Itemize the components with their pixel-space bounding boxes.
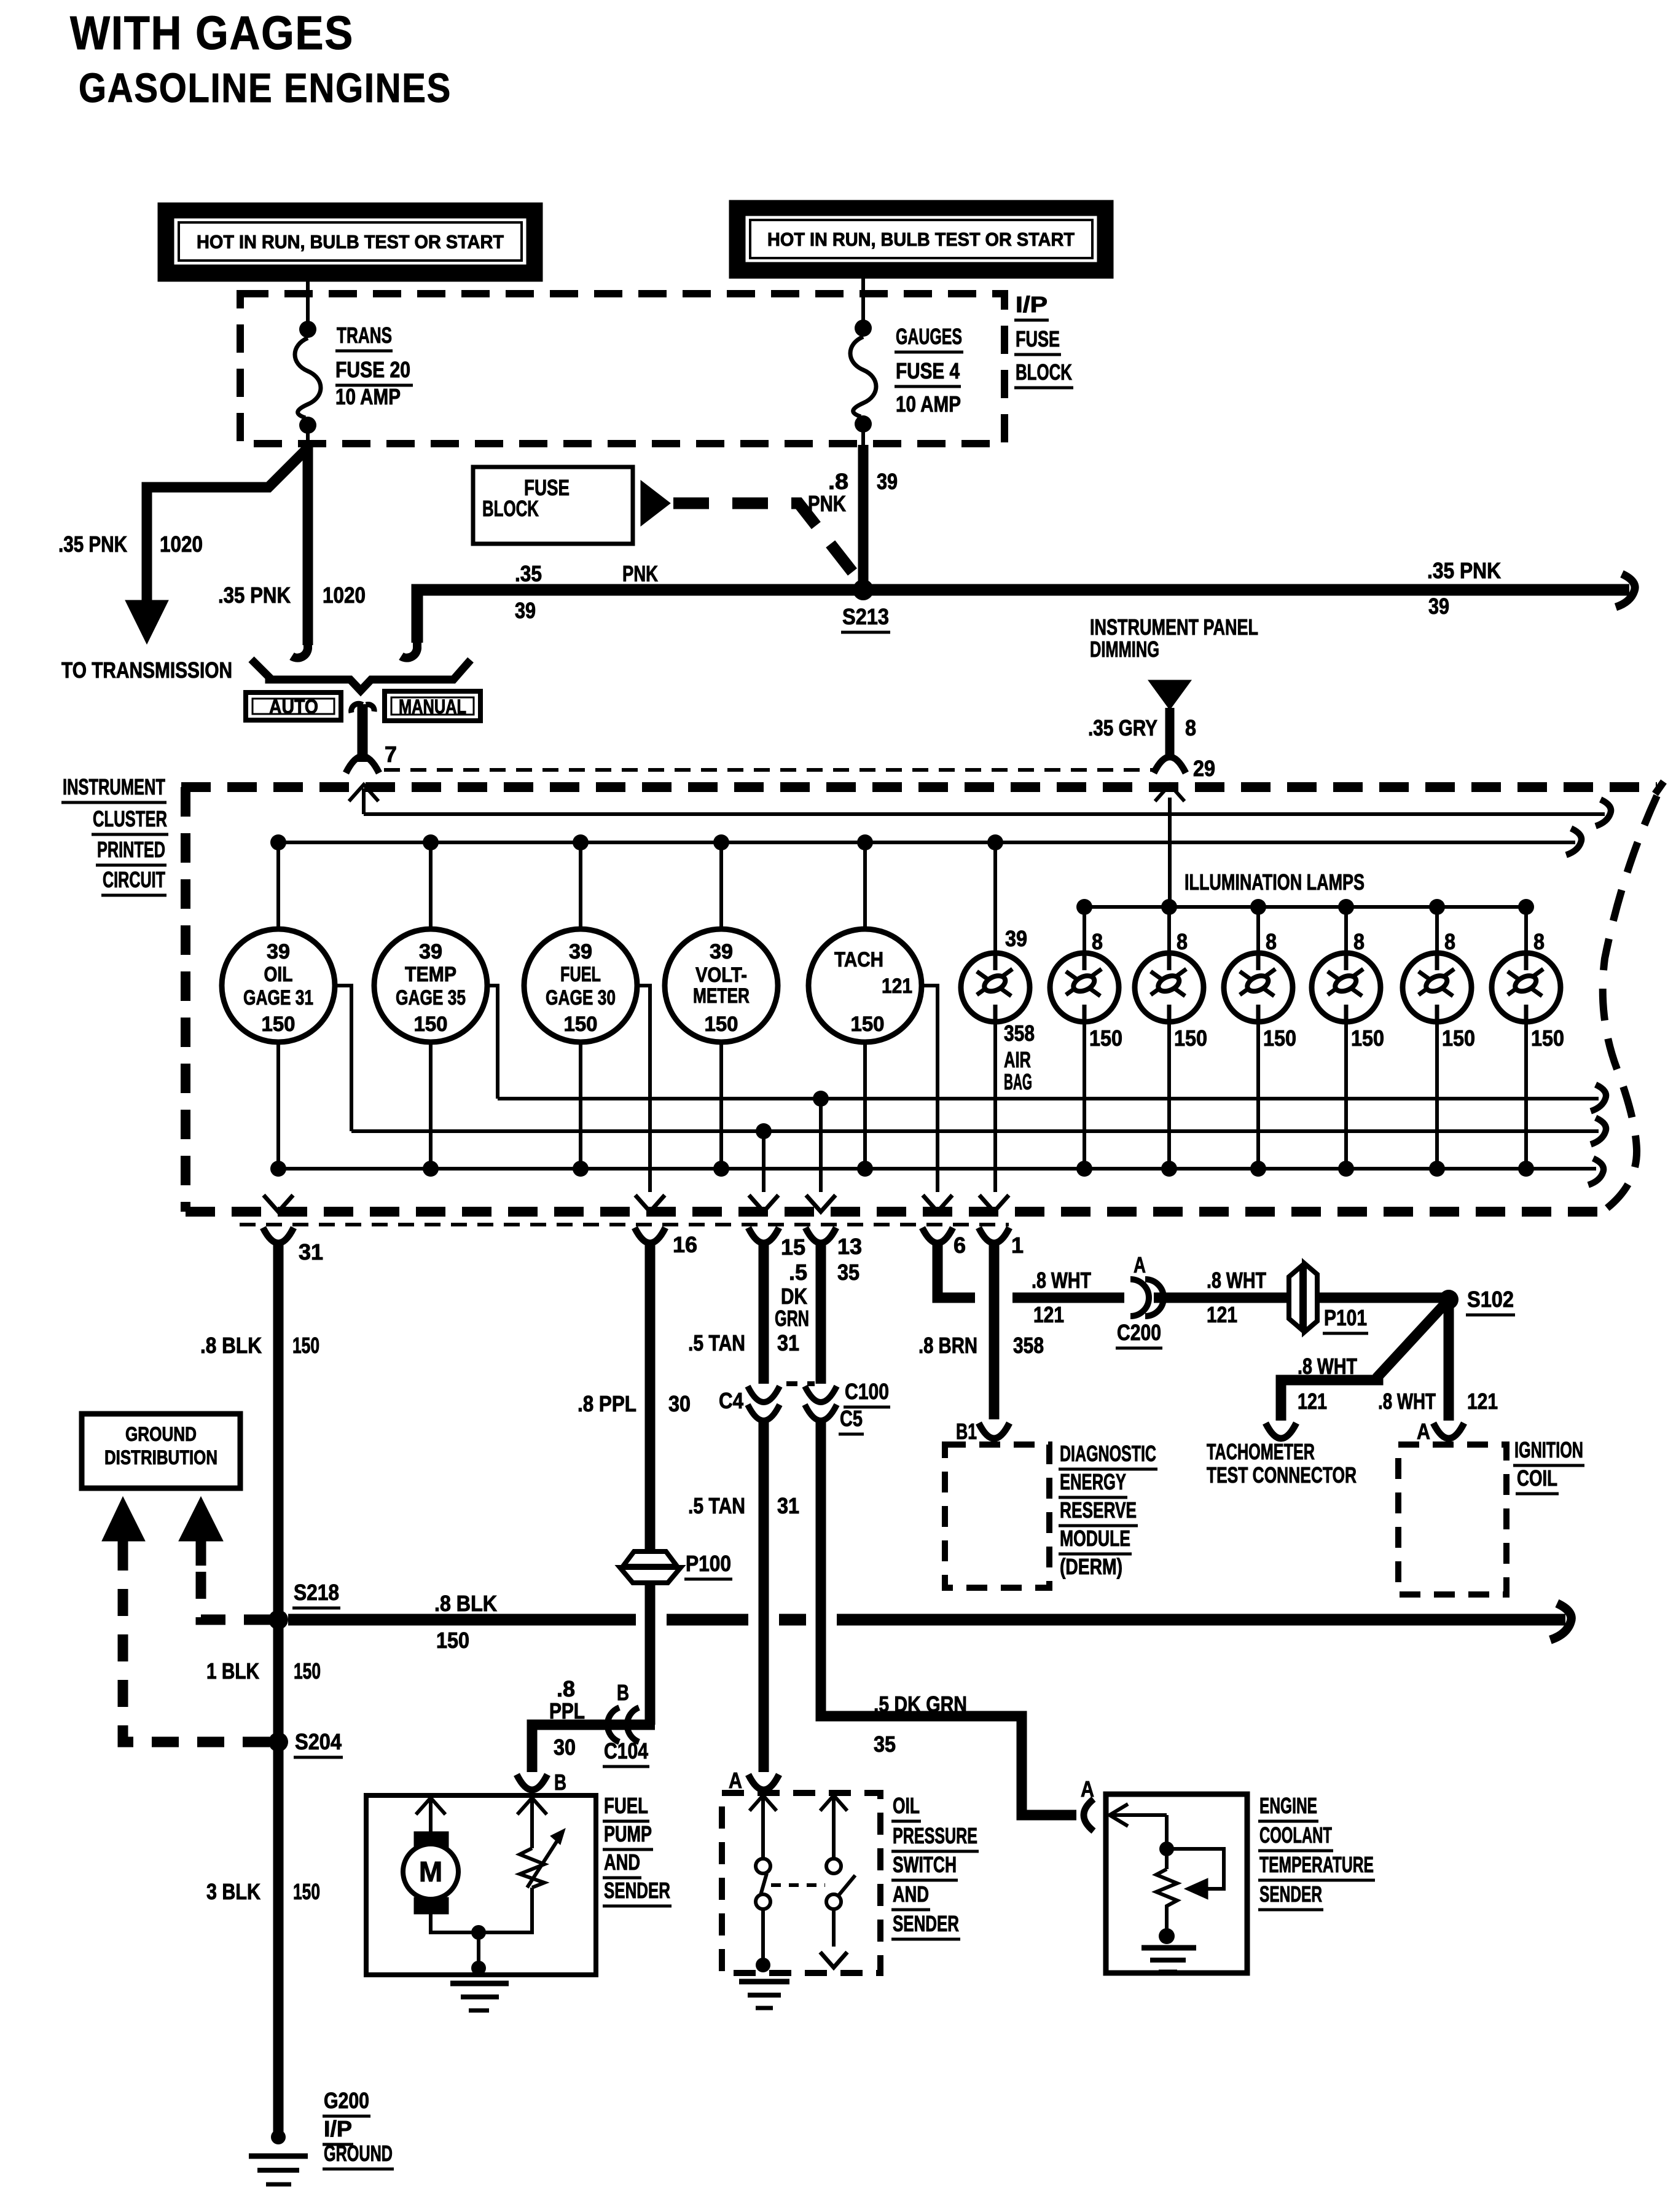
arrow from dimming xyxy=(1148,680,1191,710)
wire S204 to ground xyxy=(273,1746,284,2132)
gauge TACH circle xyxy=(809,929,922,1042)
junction dot lamp bus x2484 xyxy=(1518,899,1534,915)
wire pin1 down xyxy=(989,1241,1000,1419)
connector C100 arcs xyxy=(805,1386,837,1421)
wire box1 to fuse 20 xyxy=(306,281,310,322)
wire fuse20 to box edge xyxy=(306,433,310,446)
label TEMPERATURE xyxy=(1258,1852,1375,1880)
svg-text:121: 121 xyxy=(1207,1302,1237,1327)
svg-text:AND: AND xyxy=(893,1881,929,1907)
svg-text:7: 7 xyxy=(385,742,397,767)
svg-text:B: B xyxy=(617,1680,629,1705)
splice S213 xyxy=(853,579,874,600)
svg-text:30: 30 xyxy=(668,1391,691,1416)
svg-text:TEMP: TEMP xyxy=(405,963,456,986)
arrow to transmission xyxy=(125,600,168,644)
svg-text:IGNITION: IGNITION xyxy=(1514,1437,1583,1462)
label GROUND (g200) xyxy=(323,2141,394,2169)
power feed box 1 (HOT IN RUN, BULB TEST OR START) xyxy=(158,203,542,281)
svg-text:.8 BLK: .8 BLK xyxy=(434,1591,497,1616)
svg-text:SWITCH: SWITCH xyxy=(893,1852,957,1877)
label IGNITION xyxy=(1513,1437,1584,1465)
trace pin13 down xyxy=(819,1099,823,1192)
svg-text:TO TRANSMISSION: TO TRANSMISSION xyxy=(61,657,232,683)
junction dot gauge bus x1620 xyxy=(987,834,1003,850)
svg-text:PNK: PNK xyxy=(622,561,658,586)
coolant sender wire top xyxy=(1165,1815,1169,1869)
svg-text:S213: S213 xyxy=(842,604,889,629)
arrow pin 16 out of cluster xyxy=(635,1195,665,1212)
FUSE BLOCK box xyxy=(473,467,633,544)
gauge OIL labels xyxy=(243,940,313,1036)
junction dot lamp bus x2339 xyxy=(1429,899,1445,915)
svg-text:.35 PNK: .35 PNK xyxy=(1427,558,1501,583)
label ENGINE xyxy=(1258,1793,1318,1821)
wire pin13 below C100 xyxy=(821,1422,1076,1815)
svg-text:GAGE 31: GAGE 31 xyxy=(243,986,313,1010)
svg-text:39: 39 xyxy=(569,940,592,963)
hook connector pin 31 xyxy=(263,1228,294,1243)
svg-text:.8 WHT: .8 WHT xyxy=(1032,1268,1091,1293)
svg-text:15: 15 xyxy=(781,1234,805,1260)
svg-text:.8 WHT: .8 WHT xyxy=(1298,1354,1357,1379)
junction dot gauge bus x945 xyxy=(573,834,589,850)
dashed wire S218 to ground distribution xyxy=(201,1551,271,1620)
curl bus y1841 xyxy=(1591,1118,1606,1144)
air bag lamp wire top xyxy=(993,842,997,954)
svg-text:TACHOMETER: TACHOMETER xyxy=(1207,1439,1315,1464)
svg-text:ILLUMINATION LAMPS: ILLUMINATION LAMPS xyxy=(1185,869,1365,895)
svg-text:16: 16 xyxy=(673,1232,697,1257)
wire 29 to lamp bus xyxy=(1168,798,1172,907)
oil switch left wire xyxy=(761,1798,765,1859)
svg-text:35: 35 xyxy=(837,1260,860,1285)
wire top of TEMP gauge xyxy=(429,842,433,930)
hook coolant sender A xyxy=(1084,1799,1094,1831)
svg-text:10 AMP: 10 AMP xyxy=(335,384,401,409)
arrow into ground distribution (left) xyxy=(102,1497,145,1566)
label S204 xyxy=(294,1729,343,1757)
svg-text:GASOLINE ENGINES: GASOLINE ENGINES xyxy=(79,65,452,111)
svg-text:AIR: AIR xyxy=(1004,1047,1031,1072)
terminal dot G200 xyxy=(271,2130,286,2144)
svg-text:A: A xyxy=(1081,1776,1094,1802)
arrow pin 1 out of cluster xyxy=(979,1195,1009,1212)
svg-text:.35: .35 xyxy=(515,561,542,586)
coolant sender wiper arrowhead xyxy=(1185,1878,1208,1899)
air bag warning lamp xyxy=(961,953,1030,1022)
hook oil pressure A xyxy=(748,1775,779,1790)
gauge OIL circle xyxy=(222,929,335,1042)
svg-text:8: 8 xyxy=(1092,929,1103,954)
label I/P (g200) xyxy=(323,2116,353,2144)
junction dot gauge bus x1408 xyxy=(857,834,873,850)
svg-text:GAGE 30: GAGE 30 xyxy=(546,986,616,1010)
trace bus y1841 xyxy=(351,1129,1599,1133)
arrow pin 31 out of cluster xyxy=(264,1195,293,1212)
svg-text:CLUSTER: CLUSTER xyxy=(93,806,167,831)
svg-text:30: 30 xyxy=(554,1735,576,1760)
junction dot lamp bus x2048 xyxy=(1250,899,1266,915)
connector 7 top curls xyxy=(351,704,374,713)
wire fuse4 down to S213 xyxy=(858,445,869,585)
junction dot ground bus x1408 xyxy=(857,1161,873,1177)
wire top of VOLTMETER xyxy=(719,842,723,930)
svg-text:A: A xyxy=(1134,1252,1146,1277)
svg-text:150: 150 xyxy=(851,1013,885,1036)
ignition feed trace xyxy=(364,812,1605,816)
svg-text:31: 31 xyxy=(299,1239,323,1265)
svg-text:TEST CONNECTOR: TEST CONNECTOR xyxy=(1207,1462,1357,1488)
junction dot ground bus x1174 xyxy=(713,1161,729,1177)
svg-text:RESERVE: RESERVE xyxy=(1060,1497,1137,1523)
wire S102 to tach test connector xyxy=(1281,1304,1445,1421)
svg-text:8: 8 xyxy=(1185,715,1196,740)
illumination lamp wire bottom x2484 xyxy=(1524,1021,1528,1169)
svg-text:13: 13 xyxy=(837,1234,862,1259)
svg-text:1020: 1020 xyxy=(160,531,203,557)
fuse F20 (TRANS FUSE 20 10 AMP) xyxy=(295,338,321,418)
gauge TEMP labels xyxy=(396,940,466,1036)
svg-text:PPL: PPL xyxy=(549,1698,585,1724)
svg-text:INSTRUMENT PANEL: INSTRUMENT PANEL xyxy=(1090,614,1258,640)
svg-text:TEMPERATURE: TEMPERATURE xyxy=(1259,1852,1374,1877)
wire .8 WHT segment 2 xyxy=(1012,1293,1124,1303)
cluster top dashed edge xyxy=(181,782,1657,792)
trace OIL gauge to bus xyxy=(335,986,351,1131)
svg-text:150: 150 xyxy=(564,1013,598,1036)
hook connector 29 xyxy=(1154,757,1186,773)
svg-text:FUEL: FUEL xyxy=(604,1793,648,1818)
splice S204 xyxy=(268,1732,288,1752)
ENGINE COOLANT TEMP SENDER box xyxy=(1106,1794,1247,1973)
svg-text:A: A xyxy=(729,1768,742,1793)
illumination lamp wire bottom x1903 xyxy=(1167,1021,1171,1169)
illumination lamp wire top x2339 xyxy=(1435,907,1439,954)
label P101 xyxy=(1323,1305,1368,1333)
wire .8 PPL elbow xyxy=(532,1725,655,1772)
curl bus y1788 xyxy=(1591,1084,1606,1111)
label PUMP xyxy=(603,1821,653,1849)
arrow into ground distribution (right) xyxy=(179,1497,223,1566)
label OIL xyxy=(891,1793,921,1821)
illumination lamp x2484 xyxy=(1492,953,1560,1022)
gauge VOLTMETER circle xyxy=(665,929,778,1042)
illumination lamp wire top x1903 xyxy=(1167,907,1171,954)
svg-text:COOLANT: COOLANT xyxy=(1259,1822,1332,1848)
svg-text:121: 121 xyxy=(1033,1302,1064,1327)
wire .8 WHT segment 4 xyxy=(1318,1293,1445,1303)
junction dot ground bus x701 xyxy=(423,1161,439,1177)
svg-text:6: 6 xyxy=(954,1233,966,1258)
svg-text:150: 150 xyxy=(414,1013,448,1036)
svg-text:8: 8 xyxy=(1444,929,1455,954)
AUTO box xyxy=(246,692,341,720)
svg-text:150: 150 xyxy=(705,1013,738,1036)
svg-text:VOLT-: VOLT- xyxy=(695,963,747,987)
OIL PRESSURE SWITCH dashed box xyxy=(722,1793,880,1973)
gauge VOLTMETER labels xyxy=(693,940,750,1036)
ground symbol fuel pump xyxy=(450,1983,509,2010)
illumination lamp wire top x2048 xyxy=(1256,907,1260,954)
svg-text:.8 BLK: .8 BLK xyxy=(200,1333,262,1358)
connector C4 arcs xyxy=(748,1386,780,1421)
svg-text:150: 150 xyxy=(292,1333,319,1358)
oil switch left arrow xyxy=(750,1795,777,1811)
FUEL PUMP box xyxy=(366,1795,596,1975)
illumination lamp x2191 xyxy=(1312,953,1380,1022)
wire .8 BLK 150 horizontal segment 2 xyxy=(667,1614,748,1626)
svg-text:150: 150 xyxy=(436,1628,469,1653)
svg-text:HOT IN RUN, BULB TEST OR START: HOT IN RUN, BULB TEST OR START xyxy=(767,229,1075,250)
svg-text:PRINTED: PRINTED xyxy=(97,837,165,862)
junction dot lamp bus x1903 xyxy=(1161,899,1177,915)
ground symbol coolant sender xyxy=(1141,1948,1196,1972)
svg-text:.8 WHT: .8 WHT xyxy=(1378,1389,1436,1414)
curl arrow .8 BLK wire end xyxy=(1550,1603,1571,1639)
svg-text:1: 1 xyxy=(1011,1233,1024,1258)
wire .8 PNK dashed xyxy=(673,503,863,585)
label SENDER (oil) xyxy=(891,1911,960,1939)
hook connector pin 6 xyxy=(922,1228,953,1243)
wire bottom of OIL gauge xyxy=(276,1041,280,1169)
gauge FUEL circle xyxy=(524,929,637,1042)
svg-text:AUTO: AUTO xyxy=(269,696,318,718)
svg-text:DISTRIBUTION: DISTRIBUTION xyxy=(104,1446,217,1469)
cluster top edge end tick xyxy=(1655,782,1664,794)
svg-text:FUSE 4: FUSE 4 xyxy=(896,358,960,383)
wire bottom of TEMP gauge xyxy=(429,1041,433,1169)
svg-text:GAGE 35: GAGE 35 xyxy=(396,986,466,1010)
svg-text:1 BLK: 1 BLK xyxy=(206,1658,259,1684)
hook connector pin 13 xyxy=(805,1228,836,1243)
label PRINTED xyxy=(96,837,166,865)
label C100 xyxy=(844,1379,890,1407)
coolant sender wiper arm xyxy=(1167,1849,1224,1889)
wire pin13 down xyxy=(816,1241,826,1384)
dashed mechanical link xyxy=(771,1883,825,1887)
svg-text:SENDER: SENDER xyxy=(1259,1881,1322,1907)
connector C200 arcs xyxy=(1130,1279,1164,1316)
svg-text:GAUGES: GAUGES xyxy=(896,324,962,349)
wire pin6 down and right xyxy=(938,1241,975,1298)
hook ignition coil A xyxy=(1433,1423,1464,1438)
svg-text:150: 150 xyxy=(1089,1026,1122,1051)
svg-text:G200: G200 xyxy=(324,2088,369,2113)
arrow pin29 into cluster xyxy=(1155,785,1185,801)
svg-text:.8: .8 xyxy=(557,1676,575,1701)
wire top of OIL gauge xyxy=(276,842,280,930)
svg-text:.5 TAN: .5 TAN xyxy=(688,1330,745,1355)
arrow pin7 into cluster xyxy=(349,785,378,801)
illumination lamp wire top x1765 xyxy=(1083,907,1086,954)
svg-text:121: 121 xyxy=(1298,1389,1327,1414)
terminal dot coolant ground xyxy=(1159,1928,1175,1944)
svg-text:1020: 1020 xyxy=(323,582,366,608)
GROUND DISTRIBUTION box xyxy=(82,1414,240,1488)
illumination lamp wire bottom x1765 xyxy=(1083,1021,1086,1169)
oil sender blade xyxy=(837,1875,855,1897)
svg-text:MODULE: MODULE xyxy=(1060,1526,1130,1551)
svg-text:31: 31 xyxy=(777,1493,799,1518)
label C104 xyxy=(603,1738,649,1767)
svg-text:A: A xyxy=(1417,1419,1430,1444)
svg-text:GROUND: GROUND xyxy=(324,2141,393,2166)
junction dot ground bus x1903 xyxy=(1161,1161,1177,1177)
svg-text:P100: P100 xyxy=(686,1551,731,1576)
svg-text:.5: .5 xyxy=(789,1260,807,1285)
svg-text:B: B xyxy=(554,1770,566,1795)
wire S218 to S204 xyxy=(273,1623,284,1739)
trace pin15 down xyxy=(762,1131,766,1192)
wire pin16 down xyxy=(645,1241,656,1552)
svg-text:10 AMP: 10 AMP xyxy=(896,391,961,417)
junction dot ground bus x2191 xyxy=(1338,1161,1354,1177)
wire fuse4 to box edge xyxy=(861,431,865,446)
svg-text:I/P: I/P xyxy=(1016,292,1047,317)
svg-text:39: 39 xyxy=(877,469,898,494)
junction dot ground bus x1765 xyxy=(1076,1161,1092,1177)
dashed link C4-C100 xyxy=(786,1381,815,1386)
fuel sender wiper arrow xyxy=(527,1829,565,1888)
IGNITION COIL dashed box xyxy=(1398,1445,1506,1594)
svg-text:(DERM): (DERM) xyxy=(1060,1554,1122,1579)
svg-text:WITH GAGES: WITH GAGES xyxy=(70,7,354,60)
svg-text:150: 150 xyxy=(262,1013,296,1036)
label S213 xyxy=(841,604,890,632)
svg-text:INSTRUMENT: INSTRUMENT xyxy=(63,774,165,799)
svg-text:39: 39 xyxy=(1428,594,1449,619)
svg-text:8: 8 xyxy=(1353,929,1365,954)
junction dot ground bus x453 xyxy=(270,1161,286,1177)
label FUSE 20 xyxy=(335,357,413,385)
junction dot fuse4 top xyxy=(855,320,872,337)
curl arrow right end of PNK wire xyxy=(1616,574,1635,607)
svg-text:150: 150 xyxy=(1351,1026,1384,1051)
oil sender wire xyxy=(832,1798,836,1859)
wire .8 BLK 150 horizontal segment 4 xyxy=(837,1614,1565,1626)
hook at MANUAL wire end xyxy=(401,635,417,658)
svg-text:.8: .8 xyxy=(828,469,848,494)
junction dot coolant sender xyxy=(1159,1841,1174,1856)
svg-text:39: 39 xyxy=(710,940,733,963)
svg-text:.8 PPL: .8 PPL xyxy=(578,1391,636,1416)
svg-text:358: 358 xyxy=(1004,1021,1035,1046)
label BLOCK (I/P) xyxy=(1014,359,1073,388)
svg-text:S218: S218 xyxy=(294,1580,339,1605)
illumination lamp x2339 xyxy=(1403,953,1471,1022)
junction dot pin15 tap xyxy=(756,1123,772,1139)
svg-text:.5 DK GRN: .5 DK GRN xyxy=(874,1692,967,1717)
coolant sender wire bottom xyxy=(1165,1912,1169,1931)
hook connector pin 15 xyxy=(748,1228,779,1243)
svg-text:.8 WHT: .8 WHT xyxy=(1207,1268,1266,1293)
svg-text:358: 358 xyxy=(1013,1333,1044,1358)
svg-text:M: M xyxy=(419,1856,442,1888)
oil switch ground wire xyxy=(761,1909,765,1963)
wire branch to transmission xyxy=(147,447,309,602)
hook DERM B1 xyxy=(979,1423,1009,1438)
svg-text:39: 39 xyxy=(1005,926,1027,951)
svg-text:DIAGNOSTIC: DIAGNOSTIC xyxy=(1060,1441,1156,1466)
curl ignition feed trace xyxy=(1596,799,1611,826)
label SWITCH xyxy=(891,1852,958,1880)
svg-text:150: 150 xyxy=(293,1879,320,1904)
wire bottom of VOLTMETER xyxy=(719,1041,723,1169)
wire bottom of FUEL gauge xyxy=(579,1041,582,1169)
wire box2 to fuse 4 xyxy=(861,278,865,322)
wire .8 BLK 150 horizontal segment 3 xyxy=(779,1614,806,1626)
gauge feed bus xyxy=(278,841,1575,844)
oil sender right arrow xyxy=(820,1795,847,1811)
ground G200 symbol xyxy=(249,2156,308,2184)
junction dot fuse20 top xyxy=(299,321,316,338)
junction dot gauge bus x1174 xyxy=(713,834,729,850)
cluster torn right dashed edge xyxy=(1600,796,1657,1214)
svg-text:BLOCK: BLOCK xyxy=(482,496,539,521)
air bag lamp wire bottom xyxy=(993,1021,997,1192)
gauge TACH labels xyxy=(834,948,912,1036)
illumination lamp x1903 xyxy=(1135,953,1204,1022)
svg-text:PUMP: PUMP xyxy=(604,1821,652,1846)
svg-text:150: 150 xyxy=(1442,1026,1475,1051)
svg-text:TRANS: TRANS xyxy=(337,323,392,348)
wire .8 BLK 150 horizontal segment 1 xyxy=(288,1614,636,1626)
oil switch contact lower xyxy=(756,1894,770,1909)
svg-text:39: 39 xyxy=(419,940,442,963)
trace TEMP gauge to bus xyxy=(487,986,498,1099)
junction dot fuel pump xyxy=(471,1925,486,1940)
MANUAL box xyxy=(385,691,480,721)
wire pin15 down xyxy=(759,1241,769,1384)
svg-text:ENERGY: ENERGY xyxy=(1060,1469,1126,1494)
wire top of FUEL gauge xyxy=(579,842,582,930)
svg-text:ENGINE: ENGINE xyxy=(1259,1793,1317,1818)
svg-text:BLOCK: BLOCK xyxy=(1016,359,1072,385)
label CLUSTER xyxy=(92,806,168,834)
junction dot ground bus x2339 xyxy=(1429,1161,1445,1177)
junction dot ground bus x2484 xyxy=(1518,1161,1534,1177)
junction dot lamp bus x2191 xyxy=(1338,899,1354,915)
label GAUGES xyxy=(895,324,963,352)
oil sender wire bottom xyxy=(832,1909,836,1947)
I/P fuse block dashed outline xyxy=(240,294,1004,444)
svg-text:HOT IN RUN, BULB TEST OR START: HOT IN RUN, BULB TEST OR START xyxy=(197,231,504,253)
svg-text:39: 39 xyxy=(267,940,290,963)
wire .35 PNK 39 horizontal xyxy=(417,590,1629,643)
label MODULE xyxy=(1059,1526,1132,1554)
svg-text:GROUND: GROUND xyxy=(125,1423,197,1445)
label AND (oil) xyxy=(891,1881,930,1910)
svg-text:PNK: PNK xyxy=(808,491,846,516)
cluster bottom dashed edge xyxy=(186,1207,1601,1217)
svg-text:C200: C200 xyxy=(1117,1320,1161,1345)
svg-text:CIRCUIT: CIRCUIT xyxy=(103,867,165,892)
svg-text:FUSE: FUSE xyxy=(1016,326,1060,351)
svg-text:COIL: COIL xyxy=(1517,1465,1557,1491)
label AND (pump) xyxy=(603,1849,641,1878)
curl ground bus xyxy=(1588,1158,1604,1185)
svg-text:31: 31 xyxy=(777,1330,799,1355)
svg-text:C104: C104 xyxy=(604,1738,648,1763)
svg-text:BAG: BAG xyxy=(1004,1069,1032,1094)
splice S102 xyxy=(1439,1290,1459,1309)
wire pin7 shaft xyxy=(362,788,366,814)
harness bracket xyxy=(251,659,471,691)
fuel sender branch arrow xyxy=(517,1798,547,1814)
illumination lamp wire top x2191 xyxy=(1344,907,1348,954)
junction dot gauge bus x701 xyxy=(423,834,439,850)
